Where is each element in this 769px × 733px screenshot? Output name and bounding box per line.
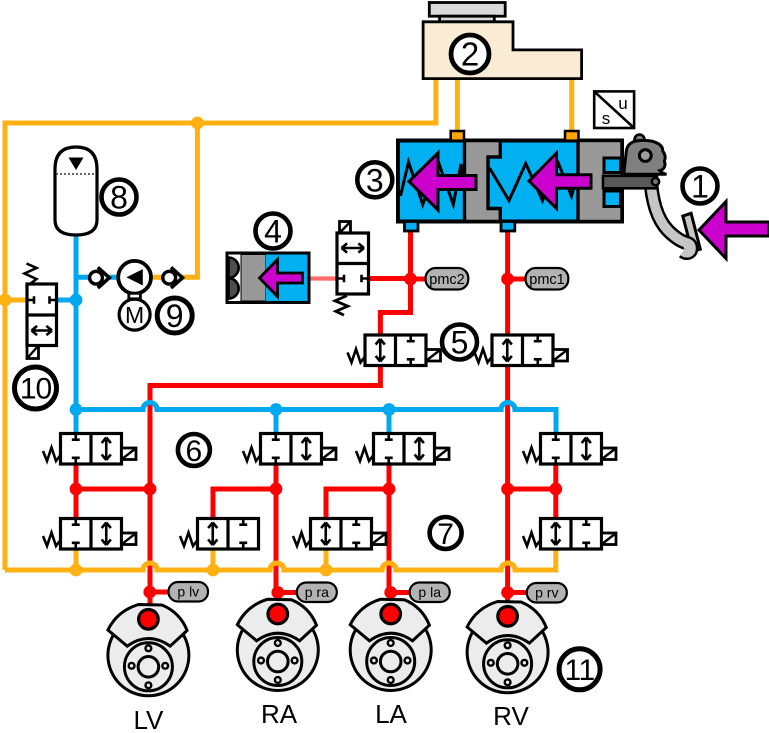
valve 10 <box>25 264 57 359</box>
svg-text:11: 11 <box>565 654 595 687</box>
label 5 <box>442 325 477 361</box>
check valve left <box>90 267 110 288</box>
valve 5a <box>348 335 441 366</box>
wire orange top bus <box>5 79 436 570</box>
mc inlet port orange 1 <box>451 131 464 141</box>
valve 7d <box>523 519 616 550</box>
master cylinder spring 1 <box>401 162 464 205</box>
pilot valve V4 <box>335 222 369 316</box>
label 4 <box>256 214 291 250</box>
svg-text:p ra: p ra <box>305 584 329 600</box>
end block notch top <box>604 158 621 173</box>
label 8 <box>102 180 137 216</box>
node red RV <box>501 483 514 496</box>
svg-text:LA: LA <box>375 699 407 729</box>
wire red stub disc LV <box>148 592 153 612</box>
wire red 7c link <box>326 489 389 519</box>
label 7 <box>430 517 462 551</box>
mc inlet port orange 2 <box>565 131 579 141</box>
motor M <box>119 299 150 330</box>
wire red 6a-7a column <box>74 464 79 519</box>
wire orange hop over LA line <box>382 563 396 570</box>
wire blue stub 6c <box>387 410 392 434</box>
node red p la <box>384 586 397 599</box>
wire red stub pill pla <box>391 590 411 595</box>
wire red pmc1 vertical RV <box>505 231 510 593</box>
node red LA <box>383 483 396 496</box>
wire orange reservoir drop mid <box>455 79 460 131</box>
node red p ra <box>271 586 284 599</box>
reservoir 2 body <box>423 22 581 79</box>
wire red pmc2 to valve <box>369 276 411 281</box>
brake lever 1 pivot hole <box>639 150 651 162</box>
svg-text:p la: p la <box>418 584 441 600</box>
valve 7b <box>180 519 259 550</box>
brake lever 1 blade <box>651 176 692 253</box>
wire red 6b column RA <box>274 464 279 593</box>
label 3 <box>357 162 392 198</box>
wire red stub pill pra <box>278 590 298 595</box>
valve 5b <box>475 335 568 366</box>
node red pmc2 <box>404 273 417 286</box>
pump 4 body <box>227 253 309 303</box>
svg-text:5: 5 <box>451 325 469 361</box>
wire red LV link <box>76 487 150 492</box>
valve 7c <box>293 519 386 550</box>
tag p ra <box>297 583 337 603</box>
wire blue hop over LV line <box>143 403 157 410</box>
hand force arrow 1 <box>699 202 769 259</box>
svg-text:RA: RA <box>261 699 298 729</box>
motor coupling <box>129 293 141 299</box>
node red pmc1 <box>501 273 514 286</box>
node red p lv <box>143 586 156 599</box>
brake lever 1 foot peg <box>683 213 701 251</box>
wire orange hop over LV line <box>143 563 157 570</box>
wire orange valve7c drop <box>324 550 329 571</box>
wire red RV link <box>508 487 556 492</box>
wire red 6d-7d column <box>553 464 558 519</box>
valve 6c <box>356 434 449 465</box>
pressure sensor u/s <box>594 91 634 128</box>
tag p lv <box>169 582 209 602</box>
wire orange pump riser <box>181 123 197 277</box>
wire red stub disc LA <box>388 593 393 609</box>
valve 6d <box>523 434 616 465</box>
wire red stub pill pmc2 <box>411 277 428 282</box>
master cylinder arrow 1 <box>409 153 476 210</box>
reservoir 2 cap <box>429 3 505 22</box>
pump 9 <box>118 261 151 294</box>
svg-text:2: 2 <box>461 36 479 73</box>
svg-text:u: u <box>618 94 627 113</box>
valve 6b <box>243 434 336 465</box>
wire red 6c column LA <box>387 464 392 593</box>
master cylinder 3 body <box>398 141 622 222</box>
wire orange hop over RV line <box>501 563 515 570</box>
wire red stub pill plv <box>150 590 170 595</box>
brake disc LA <box>350 599 431 690</box>
node blue bus 6c <box>383 403 396 416</box>
node red LV <box>144 483 157 496</box>
label 2 <box>451 35 489 73</box>
wire blue hop over RV line <box>501 403 515 410</box>
svg-text:pmc2: pmc2 <box>429 272 464 288</box>
svg-text:s: s <box>602 109 611 128</box>
wire red stub pill prv <box>508 590 528 595</box>
svg-text:4: 4 <box>264 214 282 250</box>
brake lever 1 pin <box>652 178 659 185</box>
label 6 <box>178 434 210 468</box>
svg-text:3: 3 <box>366 162 384 198</box>
tag p la <box>410 583 450 603</box>
wire blue stub 6b <box>274 410 279 434</box>
node orange 7b <box>207 564 220 577</box>
tag pmc2 <box>426 268 469 290</box>
wire red pmc2 vertical <box>380 231 410 335</box>
wire red 7b link <box>213 489 276 519</box>
wire blue stub 6a <box>74 410 79 434</box>
brake lever 1 push rod <box>603 176 657 189</box>
accumulator 8 <box>55 147 97 235</box>
wire red stub disc RA <box>275 593 280 609</box>
svg-text:8: 8 <box>110 180 128 216</box>
master cylinder spring 2 <box>490 164 578 201</box>
label 9 <box>157 298 192 334</box>
tag p rv <box>527 583 567 603</box>
mc outlet tab 2 <box>501 222 515 232</box>
wire orange to valve10 <box>5 298 27 303</box>
wire red stub pill pmc1 <box>508 277 527 282</box>
label 11 <box>559 649 600 690</box>
master cylinder piston 1 <box>465 141 501 222</box>
master cylinder end block <box>578 141 622 222</box>
wire red stub disc RV <box>505 593 510 611</box>
svg-text:pmc1: pmc1 <box>529 272 564 288</box>
node blue bus 6b <box>270 403 283 416</box>
brake lever 1 pivot body <box>624 140 667 174</box>
node orange 7a <box>70 564 83 577</box>
svg-text:RV: RV <box>493 701 529 731</box>
wire orange valve7b drop <box>211 550 216 571</box>
node red RA <box>270 483 283 496</box>
mc outlet tab 1 <box>405 222 419 232</box>
svg-text:6: 6 <box>186 435 203 468</box>
svg-text:p lv: p lv <box>177 584 199 600</box>
label 1 <box>683 169 718 205</box>
node orange pump riser junction <box>191 117 204 130</box>
label 10 <box>15 367 57 409</box>
wire red pump4 to valve (light) <box>309 276 337 280</box>
brake disc RV <box>467 602 548 693</box>
brake disc RA <box>237 599 318 690</box>
wire blue accumulator down <box>74 235 79 410</box>
svg-text:p rv: p rv <box>535 585 558 601</box>
node red p rv <box>501 586 514 599</box>
svg-text:9: 9 <box>166 298 184 334</box>
check valve right <box>163 267 183 288</box>
end block notch bottom <box>604 191 621 207</box>
wire blue bus with hops <box>76 403 556 434</box>
node orange 7c <box>320 564 333 577</box>
node red 7a <box>70 483 83 496</box>
node red 7d <box>549 483 562 496</box>
node blue valve10 <box>70 294 83 307</box>
wire orange hop over RA line <box>270 563 284 570</box>
wire orange reservoir drop right <box>569 79 574 131</box>
master cylinder arrow 2 <box>529 153 591 209</box>
svg-text:1: 1 <box>691 169 709 205</box>
wire red 5a to LV <box>150 366 380 592</box>
wire blue to check valve <box>76 275 119 280</box>
svg-text:10: 10 <box>20 373 52 406</box>
svg-text:M: M <box>125 302 144 328</box>
svg-text:7: 7 <box>437 518 454 551</box>
wire orange valve7a drop <box>74 550 79 571</box>
brake disc LV <box>108 605 189 696</box>
valve 6a <box>43 434 136 465</box>
node blue bus left <box>70 403 83 416</box>
brake lever 1 pivot ear <box>635 135 645 145</box>
node orange valve10 junction <box>0 294 11 307</box>
wire orange bottom bus with hops <box>5 550 556 571</box>
wire blue valve10 link <box>57 298 77 303</box>
valve 7a <box>43 519 136 550</box>
tag pmc1 <box>526 268 569 290</box>
wire orange pump outlet <box>151 275 163 280</box>
svg-text:LV: LV <box>133 705 164 733</box>
